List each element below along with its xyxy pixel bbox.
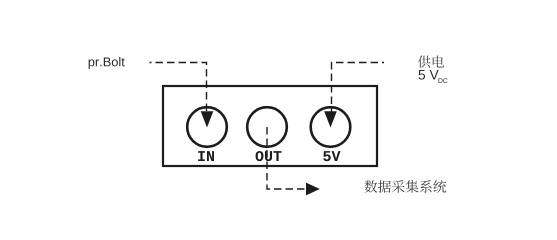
value label subscript DC bbox=[439, 78, 448, 83]
node label pr.Bolt (trigger signal source) bbox=[89, 57, 125, 69]
pin label IN bbox=[198, 151, 214, 161]
pin label OUT bbox=[256, 151, 282, 161]
connector J3: 5V jack circle bbox=[311, 107, 351, 147]
arrowhead: signal entering IN jack bbox=[201, 111, 214, 127]
device U1: signal conditioner box outline bbox=[163, 86, 377, 166]
value label 5 V bbox=[419, 70, 439, 80]
arrowhead: supply entering 5V jack bbox=[324, 111, 337, 127]
connector J2: OUT jack circle bbox=[247, 107, 287, 147]
arrowhead: output toward data acquisition system bbox=[306, 183, 320, 196]
pin label 5V bbox=[323, 151, 340, 161]
block label 数据采集系统 (data acquisition system) bbox=[364, 180, 446, 193]
wire: dashed 5V supply line (horizontal then vertical run into 5V jack) bbox=[332, 63, 385, 114]
wire: dashed output line from OUT jack down then right to the data acquisition system bbox=[267, 127, 307, 189]
wire: dashed signal line from pr.Bolt to IN jack (horizontal then vertical run) bbox=[150, 63, 207, 114]
net label 供电 (power supply) bbox=[418, 55, 444, 67]
connector J1: IN jack circle bbox=[187, 107, 227, 147]
